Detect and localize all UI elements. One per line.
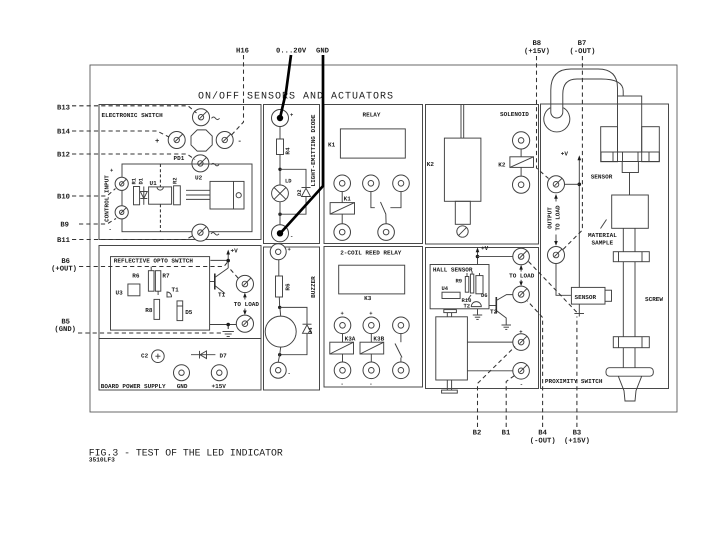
- relay terminal 1: [334, 175, 351, 192]
- wire test lead 0...20V: [280, 55, 291, 118]
- svg-text:K1: K1: [328, 142, 336, 149]
- svg-text:0...20V: 0...20V: [276, 48, 307, 56]
- hall terminal to-load 1: [513, 248, 530, 265]
- nut wide: [601, 152, 659, 162]
- svg-text:SENSOR: SENSOR: [591, 174, 613, 181]
- svg-text:D2: D2: [296, 189, 303, 196]
- board outline: [90, 65, 677, 412]
- svg-text:-: -: [520, 381, 523, 388]
- svg-text:TO LOAD: TO LOAD: [234, 301, 260, 308]
- wire: [210, 324, 237, 326]
- hose inner line: [563, 79, 623, 108]
- svg-text:T1: T1: [172, 287, 180, 294]
- output terminal 2: [548, 247, 565, 264]
- reed coil K3B: [370, 334, 372, 343]
- svg-text:-: -: [369, 381, 372, 388]
- svg-text:K3A: K3A: [345, 336, 356, 343]
- svg-text:-: -: [341, 381, 344, 388]
- svg-text:ELECTRONIC SWITCH: ELECTRONIC SWITCH: [102, 112, 164, 119]
- svg-text:MATERIAL: MATERIAL: [588, 232, 617, 239]
- material sample box: [612, 195, 649, 228]
- svg-text:-: -: [288, 370, 291, 377]
- reed terminal 1: [334, 317, 351, 334]
- svg-text:D5: D5: [185, 309, 193, 316]
- K2 relay terminal bottom: [513, 176, 530, 193]
- svg-text:K3B: K3B: [373, 336, 384, 343]
- svg-text:C2: C2: [141, 353, 149, 360]
- wire: [278, 260, 280, 276]
- svg-text:CONTROL INPUT: CONTROL INPUT: [104, 175, 111, 222]
- resistor R6 buzzer: [276, 276, 283, 297]
- svg-text:OUTPUT: OUTPUT: [547, 207, 554, 229]
- screw flange 2: [613, 337, 649, 348]
- label MATERIAL SAMPLE: [601, 220, 607, 229]
- node B6 junction: [226, 259, 230, 263]
- svg-text:U4: U4: [442, 285, 449, 292]
- svg-text:R8: R8: [145, 307, 153, 314]
- node junction: [278, 213, 281, 216]
- output terminal 1: [548, 176, 565, 193]
- svg-text:B1: B1: [502, 430, 511, 438]
- svg-text:D4: D4: [307, 327, 314, 334]
- svg-text:T1: T1: [218, 292, 226, 299]
- svg-text:B4: B4: [538, 430, 547, 438]
- svg-text:U1: U1: [150, 180, 158, 187]
- ROS terminal to-load 2: [236, 315, 253, 332]
- ground T2: [502, 324, 512, 326]
- svg-text:B12: B12: [57, 152, 70, 160]
- panel REFLECTIVE OPTO SWITCH / BOARD POWER SUPPLY: [99, 246, 261, 391]
- solenoid plunger: [455, 201, 470, 224]
- svg-text:REFLECTIVE OPTO SWITCH: REFLECTIVE OPTO SWITCH: [114, 258, 194, 265]
- screw shaft: [622, 348, 624, 368]
- ES terminal top (B13): [193, 109, 210, 126]
- svg-text:B10: B10: [57, 194, 70, 202]
- svg-text:(-OUT): (-OUT): [570, 47, 596, 56]
- hall terminal to-load 2: [513, 286, 530, 303]
- prox terminal minus: [513, 363, 530, 380]
- panel ELECTRONIC SWITCH: [99, 105, 261, 240]
- svg-text:PD1: PD1: [174, 155, 185, 162]
- panel RELAY: [324, 105, 423, 244]
- node: [226, 323, 230, 327]
- ES terminal minus: [216, 132, 233, 149]
- node junction: [278, 306, 281, 309]
- K2 coil: [520, 149, 522, 157]
- wire magnet to prox terminals: [467, 341, 512, 343]
- transistor T1 outline: [167, 292, 172, 297]
- svg-text:R6: R6: [132, 273, 140, 280]
- screw foot: [606, 368, 653, 377]
- svg-text:K1: K1: [344, 196, 352, 203]
- relay coil symbol K1: [341, 192, 343, 203]
- svg-text:D1: D1: [138, 177, 145, 184]
- wire: [279, 202, 281, 225]
- BPS terminal GND: [174, 365, 190, 381]
- hall box stubs: [444, 310, 457, 313]
- wire dashed hall to sensor test point: [529, 262, 578, 314]
- wire: [279, 127, 281, 140]
- reed coil K3A: [342, 334, 344, 343]
- ES terminal bottom (B11): [192, 224, 209, 241]
- transistor U2 leads: [186, 189, 210, 191]
- panel LIGHT-EMITTING DIODE: [264, 105, 320, 244]
- svg-text:2-COIL REED RELAY: 2-COIL REED RELAY: [340, 250, 402, 257]
- panel BUZZER: [264, 247, 320, 390]
- resistor R4: [277, 139, 284, 155]
- relay coil box K1: [340, 129, 405, 158]
- svg-text:R7: R7: [162, 273, 170, 280]
- svg-text:R9: R9: [456, 278, 463, 285]
- lamp LD: [272, 185, 289, 202]
- panel SOLENOID: [426, 105, 539, 245]
- diode D1: [143, 187, 145, 205]
- svg-text:+V: +V: [481, 245, 489, 252]
- svg-text:(+OUT): (+OUT): [51, 265, 77, 274]
- LED terminal plus: [272, 110, 289, 127]
- reed terminal 2: [363, 317, 380, 334]
- svg-text:B3: B3: [573, 430, 582, 438]
- node junction: [278, 168, 281, 171]
- K2 relay terminal top: [513, 132, 530, 149]
- svg-text:SOLENOID: SOLENOID: [500, 111, 529, 118]
- wire: [278, 297, 280, 307]
- svg-text:R4: R4: [285, 147, 292, 155]
- svg-text:SENSOR: SENSOR: [575, 294, 597, 301]
- ground opto: [223, 331, 234, 333]
- prox terminal plus: [513, 334, 530, 351]
- ES terminal PD1: [192, 155, 209, 172]
- ground hall box: [477, 309, 479, 315]
- svg-text:LIGHT-EMITTING DIODE: LIGHT-EMITTING DIODE: [310, 114, 317, 186]
- ES inner circuit box: [122, 164, 252, 232]
- node junction: [278, 353, 281, 356]
- svg-text:(GND): (GND): [54, 325, 76, 334]
- relay terminal 5: [378, 224, 395, 241]
- svg-text:B2: B2: [473, 430, 482, 438]
- panel 2-COIL REED RELAY: [324, 247, 423, 388]
- svg-text:HALL SENSOR: HALL SENSOR: [433, 267, 473, 274]
- svg-text:B7: B7: [578, 40, 587, 48]
- svg-text:-: -: [290, 233, 293, 240]
- svg-text:GND: GND: [316, 48, 330, 56]
- diode D7: [191, 354, 215, 356]
- bracket right: [642, 127, 660, 162]
- sensor box lower: [571, 287, 605, 304]
- svg-text:(+15V): (+15V): [564, 436, 590, 445]
- bracket left: [601, 127, 618, 162]
- svg-text:H16: H16: [236, 48, 249, 56]
- svg-text:U2: U2: [195, 175, 203, 182]
- svg-text:3510LF3: 3510LF3: [89, 457, 115, 464]
- wire dashed to load 1: [231, 270, 239, 279]
- hose outer line: [551, 69, 618, 108]
- hall sensor box: [430, 265, 489, 309]
- svg-text:RELAY: RELAY: [363, 112, 381, 119]
- svg-text:R6: R6: [285, 283, 292, 291]
- solenoid body X2: [444, 138, 481, 201]
- reed terminal 5: [363, 362, 380, 379]
- diode D2: [302, 187, 311, 189]
- reed contact: [400, 334, 402, 343]
- reed terminal 3: [393, 317, 410, 334]
- resistor R1: [134, 187, 140, 205]
- svg-text:B14: B14: [57, 129, 71, 137]
- diode D5: [177, 301, 183, 321]
- magnet body: [436, 317, 468, 380]
- nut lower: [622, 162, 638, 173]
- buzzer BZ: [279, 307, 282, 316]
- relay terminal 2: [363, 175, 380, 192]
- sensor lead to test point: [578, 304, 580, 316]
- transistor T2: [489, 305, 496, 307]
- wire branch to D2: [280, 169, 306, 187]
- svg-text:TO LOAD: TO LOAD: [555, 205, 562, 231]
- screw shaft: [622, 228, 624, 251]
- svg-text:B11: B11: [57, 237, 71, 245]
- wire test lead GND: [281, 55, 323, 233]
- screw shaft: [622, 262, 624, 337]
- svg-text:BUZZER: BUZZER: [310, 276, 317, 298]
- LED terminal minus: [272, 225, 289, 242]
- transistor T1: [210, 281, 215, 283]
- svg-text:LD: LD: [285, 178, 292, 185]
- BPS terminal +15V: [211, 365, 227, 381]
- svg-text:B13: B13: [57, 105, 70, 113]
- wire output2 to sensor: [556, 264, 571, 296]
- reed relay coil box K3: [339, 265, 405, 294]
- ES potentiometer knob: [191, 130, 212, 151]
- svg-text:FIG.3 - TEST OF THE LED INDICA: FIG.3 - TEST OF THE LED INDICATOR: [89, 448, 283, 459]
- ES dashed net PD1 to bottom: [159, 164, 161, 187]
- svg-text:(+15V): (+15V): [524, 47, 550, 56]
- svg-text:+V: +V: [231, 248, 239, 255]
- relay contact: [371, 192, 375, 208]
- wire branch to D4: [280, 307, 307, 324]
- ES control terminal plus (B10): [115, 177, 128, 190]
- ROS terminal to-load 1: [236, 275, 253, 292]
- buzzer terminal minus: [270, 362, 286, 378]
- svg-text:T2: T2: [490, 309, 498, 316]
- resistor R7: [155, 271, 160, 292]
- solenoid rod: [460, 105, 462, 139]
- svg-text:-: -: [109, 226, 112, 233]
- wire box to +V node: [210, 259, 228, 261]
- svg-text:B9: B9: [60, 222, 69, 230]
- svg-text:PROXIMITY SWITCH: PROXIMITY SWITCH: [545, 378, 603, 385]
- svg-text:+: +: [155, 138, 159, 146]
- sensor cylinder: [618, 96, 642, 152]
- svg-text:TO LOAD: TO LOAD: [509, 273, 535, 280]
- svg-text:D7: D7: [220, 353, 228, 360]
- panel right sensor/screw: [541, 104, 669, 389]
- wire: [278, 347, 281, 362]
- svg-text:R2: R2: [172, 177, 179, 184]
- reed terminal 6: [393, 362, 410, 379]
- panel HALL SENSOR / PROXIMITY SWITCH: [426, 248, 539, 389]
- svg-text:K2: K2: [427, 161, 435, 168]
- screw flange 1: [613, 252, 649, 262]
- wire H16 dashed leader: [232, 55, 244, 135]
- svg-text:T2: T2: [464, 303, 471, 310]
- buzzer terminal plus: [270, 244, 286, 260]
- relay terminal 4: [334, 224, 351, 241]
- svg-text:R1: R1: [131, 177, 138, 184]
- svg-text:D6: D6: [481, 292, 488, 299]
- relay terminal 3: [393, 175, 410, 192]
- resistor R2: [174, 186, 181, 205]
- svg-text:GND: GND: [177, 383, 188, 390]
- svg-text:SAMPLE: SAMPLE: [592, 240, 614, 247]
- ES terminal plus (B14): [168, 132, 185, 149]
- svg-text:BOARD POWER SUPPLY: BOARD POWER SUPPLY: [101, 383, 166, 390]
- svg-text:K2: K2: [498, 162, 506, 169]
- svg-text:(-OUT): (-OUT): [530, 436, 556, 445]
- transistor U2: [210, 181, 244, 209]
- svg-text:B8: B8: [532, 40, 541, 48]
- IC U1: [149, 187, 172, 204]
- wire: [279, 155, 281, 186]
- svg-text:K3: K3: [364, 295, 372, 302]
- reed terminal 4: [334, 362, 351, 379]
- hose loop end: [544, 108, 570, 132]
- stem: [629, 173, 631, 196]
- svg-text:+15V: +15V: [212, 383, 227, 390]
- svg-text:-: -: [238, 138, 242, 146]
- ROS inner box: [111, 257, 210, 331]
- svg-text:U3: U3: [116, 290, 124, 297]
- svg-text:+V: +V: [561, 151, 569, 158]
- ES control terminal minus (B9): [115, 206, 128, 219]
- svg-text:ON/OFF SENSORS AND ACTUATORS: ON/OFF SENSORS AND ACTUATORS: [198, 91, 394, 103]
- svg-text:SCREW: SCREW: [645, 296, 663, 303]
- diode D4: [303, 323, 312, 325]
